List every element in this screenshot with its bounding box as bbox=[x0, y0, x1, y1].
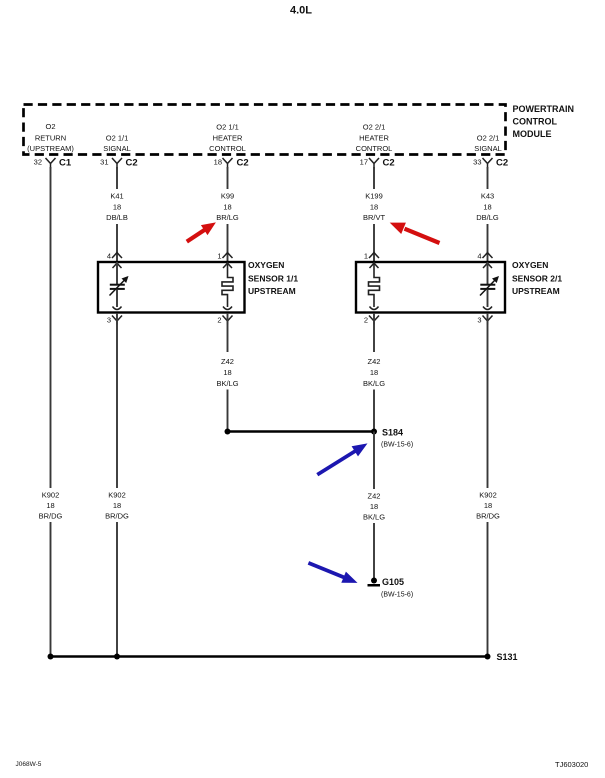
pin 1 (sensor 2/1 top-left) bbox=[364, 252, 379, 269]
oxygen sensor 1/1 upstream box bbox=[98, 262, 245, 313]
svg-text:Z42: Z42 bbox=[368, 357, 381, 366]
svg-text:Z42: Z42 bbox=[221, 357, 234, 366]
svg-text:4: 4 bbox=[477, 252, 481, 261]
label OXYGEN SENSOR 1/1 UPSTREAM bbox=[248, 260, 298, 296]
svg-text:(UPSTREAM): (UPSTREAM) bbox=[27, 144, 74, 153]
ground G105 bbox=[368, 577, 414, 599]
svg-text:TJ603020: TJ603020 bbox=[555, 760, 588, 769]
powertrain control module (dashed box) bbox=[24, 105, 506, 155]
wire Z42 BK/LG (sensor 1/1 pin 2 to S184) bbox=[227, 313, 229, 352]
svg-text:BK/LG: BK/LG bbox=[216, 379, 238, 388]
svg-text:K199: K199 bbox=[365, 192, 383, 201]
svg-text:S184: S184 bbox=[382, 428, 403, 438]
svg-text:S131: S131 bbox=[497, 652, 518, 662]
pin 2 (sensor 1/1 bottom-right) bbox=[217, 307, 232, 325]
svg-text:BK/LG: BK/LG bbox=[363, 379, 385, 388]
svg-text:DB/LG: DB/LG bbox=[476, 213, 499, 222]
svg-text:UPSTREAM: UPSTREAM bbox=[512, 286, 560, 296]
svg-text:DB/LB: DB/LB bbox=[106, 213, 128, 222]
label K902 18 BR/DG (col 5) bbox=[476, 491, 500, 521]
wire bbox=[487, 522, 489, 657]
svg-text:SENSOR 1/1: SENSOR 1/1 bbox=[248, 274, 298, 284]
svg-text:SENSOR 2/1: SENSOR 2/1 bbox=[512, 274, 562, 284]
red arrow (pointing at K99 BR/LG) bbox=[187, 222, 216, 241]
wire bbox=[227, 224, 229, 262]
wire K43 18 DB/LG (pin 33 to sensor 2/1 pin 4) bbox=[487, 167, 489, 189]
wire bbox=[116, 522, 118, 657]
svg-text:UPSTREAM: UPSTREAM bbox=[248, 286, 296, 296]
wire K902 BR/DG (sensor 1/1 pin 3 to S131) bbox=[116, 313, 118, 488]
label K43 18 DB/LG bbox=[476, 192, 499, 222]
svg-text:32: 32 bbox=[34, 158, 42, 167]
svg-text:OXYGEN: OXYGEN bbox=[512, 260, 548, 270]
svg-text:POWERTRAIN: POWERTRAIN bbox=[513, 104, 575, 114]
svg-text:K99: K99 bbox=[221, 192, 234, 201]
svg-text:C2: C2 bbox=[126, 158, 138, 169]
svg-text:O2 1/1: O2 1/1 bbox=[106, 133, 129, 142]
svg-text:18: 18 bbox=[370, 203, 378, 212]
svg-text:K41: K41 bbox=[110, 192, 123, 201]
wire bbox=[373, 390, 375, 432]
wire K41 18 DB/LB (pin 31 to sensor 1/1 pin 4) bbox=[116, 167, 118, 189]
svg-text:OXYGEN: OXYGEN bbox=[248, 260, 284, 270]
svg-text:BK/LG: BK/LG bbox=[363, 513, 385, 522]
connector pin 31 C2 bbox=[100, 158, 138, 169]
oxygen sensor 2/1 upstream box bbox=[356, 262, 505, 313]
svg-text:HEATER: HEATER bbox=[213, 133, 243, 142]
svg-text:C2: C2 bbox=[237, 158, 249, 169]
pin label O2 1/1 SIGNAL bbox=[103, 133, 131, 153]
connector pin 32 C1 bbox=[34, 158, 72, 169]
svg-text:(BW-15-6): (BW-15-6) bbox=[381, 592, 413, 599]
splice S131 (bottom bus) bbox=[48, 652, 518, 662]
svg-text:C2: C2 bbox=[383, 158, 395, 169]
svg-text:SIGNAL: SIGNAL bbox=[103, 144, 131, 153]
svg-text:K43: K43 bbox=[481, 192, 494, 201]
svg-text:C1: C1 bbox=[59, 158, 72, 169]
label POWERTRAIN CONTROL MODULE bbox=[513, 104, 575, 139]
svg-text:18: 18 bbox=[370, 368, 378, 377]
svg-text:18: 18 bbox=[370, 502, 378, 511]
svg-text:1: 1 bbox=[364, 252, 368, 261]
svg-text:3: 3 bbox=[107, 316, 111, 325]
connector pin 17 C2 bbox=[360, 158, 395, 169]
svg-text:2: 2 bbox=[364, 316, 368, 325]
svg-text:O2: O2 bbox=[45, 122, 55, 131]
heater element sensor 1/1 bbox=[222, 262, 233, 307]
svg-text:G105: G105 bbox=[382, 577, 404, 587]
heater element sensor 2/1 bbox=[369, 262, 380, 307]
label Z42 18 BK/LG (right) bbox=[363, 357, 385, 388]
svg-text:MODULE: MODULE bbox=[513, 129, 552, 139]
svg-text:BR/DG: BR/DG bbox=[105, 512, 129, 521]
svg-text:CONTROL: CONTROL bbox=[513, 116, 558, 126]
svg-text:CONTROL: CONTROL bbox=[356, 144, 393, 153]
blue arrow (pointing at S184) bbox=[317, 443, 367, 474]
wire bbox=[373, 224, 375, 262]
svg-text:4: 4 bbox=[107, 252, 111, 261]
sensor element (variable) sensor 2/1 bbox=[480, 262, 499, 307]
svg-text:BR/DG: BR/DG bbox=[476, 512, 500, 521]
pin label O2 1/1 HEATER CONTROL bbox=[209, 123, 246, 153]
svg-text:18: 18 bbox=[223, 203, 231, 212]
splice S184 bbox=[225, 428, 414, 449]
wire Z42 BK/LG (sensor 2/1 pin 2 to S184) bbox=[373, 313, 375, 352]
wire bbox=[227, 390, 229, 432]
svg-text:18: 18 bbox=[484, 501, 492, 510]
label Z42 18 BK/LG (lower) bbox=[363, 492, 385, 522]
sensor element (variable) sensor 1/1 bbox=[110, 262, 129, 307]
svg-text:HEATER: HEATER bbox=[359, 133, 389, 142]
label K902 18 BR/DG (col 2) bbox=[105, 491, 129, 521]
svg-text:O2 1/1: O2 1/1 bbox=[216, 123, 239, 132]
svg-text:BR/LG: BR/LG bbox=[216, 213, 239, 222]
svg-text:18: 18 bbox=[46, 501, 54, 510]
svg-text:18: 18 bbox=[214, 158, 222, 167]
svg-text:33: 33 bbox=[473, 158, 481, 167]
svg-text:K902: K902 bbox=[108, 491, 126, 500]
svg-text:Z42: Z42 bbox=[368, 492, 381, 501]
wire K902 BR/DG (sensor 2/1 pin 3 to S131) bbox=[487, 313, 489, 488]
svg-text:BR/DG: BR/DG bbox=[39, 512, 63, 521]
blue arrow (pointing at G105) bbox=[308, 563, 357, 583]
wire K199 18 BR/VT (pin 17 to sensor 2/1 pin 1) bbox=[373, 167, 375, 189]
svg-text:2: 2 bbox=[217, 316, 221, 325]
pin label O2 RETURN (UPSTREAM) bbox=[27, 122, 74, 153]
label OXYGEN SENSOR 2/1 UPSTREAM bbox=[512, 260, 562, 296]
label K41 18 DB/LB bbox=[106, 192, 128, 222]
wire bbox=[373, 523, 375, 578]
label K902 18 BR/DG (left) bbox=[39, 491, 63, 521]
red arrow (pointing at K199 BR/VT) bbox=[390, 223, 440, 243]
svg-text:31: 31 bbox=[100, 158, 108, 167]
connector pin 18 C2 bbox=[214, 158, 249, 169]
label K99 18 BR/LG bbox=[216, 192, 239, 222]
label K199 18 BR/VT bbox=[363, 192, 386, 222]
svg-text:18: 18 bbox=[113, 501, 121, 510]
wire Z42 BK/LG (S184 to G105) bbox=[373, 432, 375, 490]
svg-text:BR/VT: BR/VT bbox=[363, 213, 386, 222]
wire bbox=[116, 224, 118, 262]
wire K99 18 BR/LG (pin 18 to sensor 1/1 pin 1) bbox=[227, 167, 229, 189]
svg-text:CONTROL: CONTROL bbox=[209, 144, 246, 153]
svg-text:SIGNAL: SIGNAL bbox=[474, 144, 502, 153]
pin 1 (sensor 1/1 top-right) bbox=[217, 252, 232, 269]
wire bbox=[50, 522, 52, 657]
svg-text:18: 18 bbox=[223, 368, 231, 377]
wire K902 (O2 return, pin 32 to S131) bbox=[50, 167, 52, 488]
pin label O2 2/1 SIGNAL bbox=[474, 133, 502, 153]
svg-text:K902: K902 bbox=[479, 491, 497, 500]
pin 4 (sensor 1/1 top-left) bbox=[107, 252, 122, 269]
svg-text:17: 17 bbox=[360, 158, 368, 167]
connector pin 33 C2 bbox=[473, 158, 508, 169]
svg-text:J068W-5: J068W-5 bbox=[16, 761, 42, 768]
svg-text:18: 18 bbox=[483, 203, 491, 212]
pin label O2 2/1 HEATER CONTROL bbox=[356, 123, 393, 153]
pin 3 (sensor 2/1 bottom-right) bbox=[477, 307, 492, 325]
label Z42 18 BK/LG (left) bbox=[216, 357, 238, 388]
svg-text:1: 1 bbox=[217, 252, 221, 261]
svg-text:3: 3 bbox=[477, 316, 481, 325]
wire bbox=[487, 224, 489, 262]
svg-text:K902: K902 bbox=[42, 491, 60, 500]
svg-text:O2 2/1: O2 2/1 bbox=[363, 123, 386, 132]
pin 4 (sensor 2/1 top-right) bbox=[477, 252, 492, 269]
svg-text:4.0L: 4.0L bbox=[290, 5, 312, 17]
pin 3 (sensor 1/1 bottom-left) bbox=[107, 307, 122, 325]
pin 2 (sensor 2/1 bottom-left) bbox=[364, 307, 379, 325]
svg-text:C2: C2 bbox=[496, 158, 508, 169]
svg-text:18: 18 bbox=[113, 203, 121, 212]
svg-text:O2 2/1: O2 2/1 bbox=[477, 133, 500, 142]
svg-text:(BW-15-6): (BW-15-6) bbox=[381, 442, 413, 449]
svg-text:RETURN: RETURN bbox=[35, 133, 66, 142]
